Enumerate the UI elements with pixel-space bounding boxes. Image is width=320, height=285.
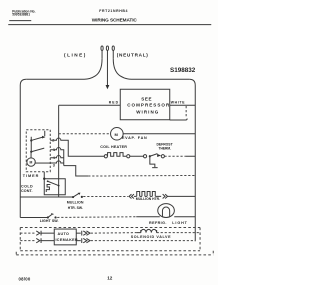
svg-text:HTR. SW.: HTR. SW.: [68, 206, 83, 210]
cold control box: [44, 179, 65, 195]
timer switch arm 1 with arrow: [31, 131, 45, 141]
coil heater element (resistor): [108, 153, 127, 157]
main vertical feed wire with hop bumps: [58, 105, 60, 197]
defrost thermostat terminal right: [161, 155, 164, 158]
evap fan feed wire (dashed): [59, 133, 111, 135]
wire mullion switch to heater (dashed): [83, 195, 128, 197]
wire lamp to right rail: [174, 216, 195, 218]
wire center row dashed to right rail: [88, 174, 195, 177]
wire terminal 4: [50, 156, 64, 158]
coil heater terminal left: [104, 155, 107, 158]
wire mullion heater to right rail: [168, 195, 196, 197]
freezer section dashed box bottom: [20, 250, 200, 252]
svg-text:TIMER: TIMER: [23, 174, 40, 178]
header rule: [8, 24, 211, 26]
connector chevrons left: [129, 194, 134, 198]
timer internal common wire: [30, 137, 32, 153]
coil heater terminal right: [127, 155, 130, 158]
solenoid coil: [136, 229, 156, 232]
cold control bellows: [46, 184, 50, 192]
wire icemaker to solenoid (dashed): [91, 232, 137, 235]
svg-text:12: 12: [107, 276, 113, 281]
freezer section dashed box right: [199, 228, 201, 251]
wire right rail: [189, 79, 195, 241]
svg-text:S198832: S198832: [170, 67, 196, 74]
timer box (dashed): [26, 130, 50, 172]
wire solenoid to dashed box edge: [157, 232, 200, 234]
compressor feed wire (corner + horizontal): [59, 104, 121, 106]
wire to icemaker box: [41, 232, 54, 234]
light switch: [47, 214, 57, 219]
defrost thermostat terminal left: [143, 155, 146, 158]
wire terminal 2 to coil heater row: [50, 138, 104, 156]
svg-text:FRT21NRHB4: FRT21NRHB4: [99, 9, 128, 13]
icemaker box: [54, 229, 78, 245]
svg-text:AUTO: AUTO: [57, 232, 69, 236]
svg-text:SOLENOID VALVE: SOLENOID VALVE: [131, 235, 171, 239]
label DEFROST THERM.: [156, 143, 173, 151]
plug prong 3: [112, 46, 114, 59]
wire terminal 3 to defrost row: [50, 161, 88, 176]
mullion switch row wire: [20, 196, 73, 198]
wire defrost therm to right rail: [164, 155, 195, 157]
wire terminal 1 down: [50, 148, 64, 166]
svg-text:REFRIG.: REFRIG.: [149, 221, 167, 225]
svg-text:LIGHT: LIGHT: [172, 221, 188, 225]
bottom dashed wire: [16, 251, 213, 255]
timer switch arm 2: [31, 148, 44, 152]
mullion heater switch: [72, 193, 83, 199]
timer motor: [27, 152, 50, 167]
cold control feed from timer: [43, 172, 45, 179]
svg-text:CONT.: CONT.: [21, 189, 33, 193]
icemaker connector bottom-left: [36, 238, 41, 243]
defrost heater stub: [150, 156, 158, 167]
label MULLION HTR. SW.: [67, 201, 84, 211]
plug prong 1: [101, 46, 103, 59]
junction node: [149, 155, 151, 157]
svg-text:MULLION HTR.: MULLION HTR.: [136, 197, 160, 201]
wire evap fan to right rail: [123, 133, 195, 135]
svg-text:LIGHT SW.: LIGHT SW.: [40, 219, 59, 223]
svg-text:ICEMAKER: ICEMAKER: [55, 238, 77, 242]
svg-text:08/00: 08/00: [19, 276, 31, 281]
svg-text:SEE: SEE: [141, 96, 152, 101]
connector chevrons right: [163, 194, 168, 198]
svg-text:5995338881: 5995338881: [12, 13, 30, 17]
wire left rail: [20, 79, 26, 217]
wire icemaker return to rail (dashed): [91, 240, 196, 242]
wire compressor to right rail: [170, 104, 196, 106]
svg-text:RED: RED: [109, 101, 119, 105]
wire heater to defrost thermostat: [130, 155, 144, 157]
svg-text:M: M: [30, 161, 33, 165]
header left small rule: [9, 20, 31, 22]
svg-text:EVAP. FAN: EVAP. FAN: [122, 136, 147, 140]
svg-text:(NEUTRAL): (NEUTRAL): [117, 53, 149, 58]
icemaker connector bottom-right: [76, 238, 90, 243]
label COLD CONT.: [21, 184, 33, 193]
light switch row wire: [20, 216, 47, 218]
icemaker connector top-right: [76, 231, 90, 236]
icemaker feed top (dashed): [20, 232, 35, 234]
refrigerator lamp: [158, 204, 175, 218]
wire into lamp: [136, 216, 160, 218]
mullion heater element: [134, 191, 161, 196]
svg-text:COLD: COLD: [21, 184, 33, 188]
wire to icemaker box bottom: [41, 240, 54, 242]
icemaker return bottom: [20, 240, 35, 242]
svg-text:MULLION: MULLION: [67, 201, 84, 205]
wire neutral-side curve from plug to right bus: [113, 59, 189, 80]
wire light switch to lamp (dashed): [57, 216, 136, 219]
svg-text:WIRING: WIRING: [136, 110, 159, 115]
svg-text:COMPRESSOR: COMPRESSOR: [127, 103, 170, 108]
svg-text:COIL HEATER: COIL HEATER: [100, 145, 127, 149]
cold control contact: [47, 180, 60, 186]
junction at cold control corner: [43, 178, 45, 180]
compressor box: [120, 89, 170, 120]
svg-text:WHITE: WHITE: [171, 101, 185, 105]
plug prong 2 (ground): [106, 46, 110, 89]
svg-text:(LINE): (LINE): [64, 53, 87, 58]
wire line-side curve from plug to left bus: [26, 59, 102, 80]
freezer section dashed box left: [19, 228, 21, 251]
svg-text:3: 3: [53, 164, 55, 168]
evap fan motor: [111, 127, 124, 140]
defrost thermostat contact arm: [150, 154, 161, 157]
icemaker connector top-left: [36, 231, 41, 236]
svg-text:WIRING SCHEMATIC: WIRING SCHEMATIC: [92, 18, 138, 23]
svg-text:THERM.: THERM.: [158, 146, 171, 150]
freezer section dashed box top: [20, 227, 200, 229]
compressor aux stub (solid bottom + dashed up): [170, 106, 187, 120]
